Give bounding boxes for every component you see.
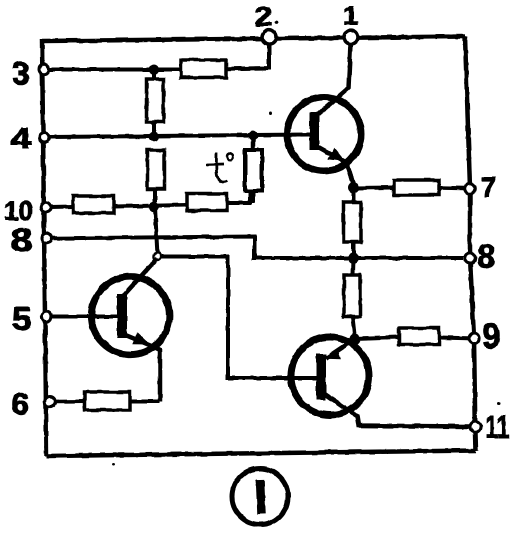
svg-text:8: 8 (11, 222, 33, 258)
svg-text:1: 1 (343, 0, 358, 30)
wire: pin 8 left row with jog (52, 237, 463, 259)
wire: left rail (42, 39, 47, 456)
node G junction pin8 row (348, 252, 359, 263)
svg-text:5: 5 (12, 301, 32, 337)
pin 7 circle (465, 183, 476, 194)
wire: Q2 collector to node E (123, 258, 158, 296)
pin 4 circle (40, 133, 50, 143)
resistor R11 (pin6 row) (85, 392, 130, 410)
wire: node H to R10 (355, 337, 399, 339)
wire: Q1 emitter (316, 146, 354, 190)
wire: Q3 collector to pin 11 row (322, 392, 470, 427)
svg-text:7: 7 (481, 172, 497, 203)
pin 10 circle (41, 202, 51, 212)
svg-text:3: 3 (12, 56, 30, 92)
pin 1 circle (344, 30, 358, 44)
wire: top rail (42, 37, 465, 42)
pin 8 right circle (465, 253, 476, 264)
transistor Q2 (91, 277, 169, 355)
node C junction pin4/R4 (248, 131, 258, 141)
node D junction pin10 row (149, 202, 159, 212)
wire: Q1 collector to pin 1 (315, 44, 351, 118)
label t deg (207, 153, 234, 183)
resistor R3 (vertical between pin4 and pin10 rows) (148, 150, 165, 189)
node B junction pin4/R2 (149, 132, 159, 142)
wire: R7 to pin7 (439, 186, 464, 191)
wire: bottom rail (47, 451, 477, 457)
node A junction on pin3 line (149, 65, 159, 75)
svg-text:4: 4 (11, 123, 32, 156)
wire: Q2 emitter (123, 334, 160, 402)
resistor R7 (to pin 7) (394, 180, 439, 195)
wire: R10 to pin 9 (439, 336, 468, 341)
resistor R8 (vertical below node F) (352, 188, 356, 202)
wire: pin 3 to junction (50, 68, 181, 72)
wire: R6 to R4 bottom (227, 191, 250, 203)
wire: node E to Q3 base (162, 257, 316, 379)
arrowhead Q3 emitter (325, 349, 341, 359)
node H: pin9 junction (350, 334, 361, 345)
transistor Q1 (287, 97, 361, 171)
svg-text:2: 2 (255, 2, 273, 32)
wire: pin 4 row (50, 135, 310, 138)
wire: junction D down to node E (155, 207, 158, 257)
svg-text:6: 6 (11, 388, 30, 421)
node F: Q1 emitter junction (348, 183, 359, 194)
wire: R5 to junction (114, 205, 187, 207)
wire: pin 5 to Q2 base (52, 315, 118, 319)
pin 5 circle (41, 312, 51, 322)
pin 2 circle (262, 30, 276, 44)
resistor R1 (pin3 row horizontal) (181, 60, 226, 78)
arrowhead Q1 emitter (328, 148, 346, 162)
resistor R6 (pin10 row right) (187, 194, 227, 211)
pin 6 circle (45, 397, 56, 408)
transistor Q3 (291, 337, 369, 415)
resistor R4 (t-deg vertical) (251, 139, 256, 150)
speckles (112, 463, 115, 466)
resistor R10 (to pin 9) (399, 328, 439, 345)
svg-text:11: 11 (486, 409, 510, 445)
resistor R2 (vertical between pin3 and pin4 rows) (152, 74, 156, 80)
pin 9 circle (469, 333, 480, 344)
logo circle I (232, 469, 288, 525)
wire: node F to R7 (354, 186, 395, 191)
wire: R11 to Q2 emitter (130, 400, 160, 404)
resistor R5 (pin10 row left) (73, 196, 114, 213)
pin 3 circle (39, 64, 49, 74)
node E small circle (154, 253, 161, 260)
wire: Q3 emitter from node H (326, 339, 355, 359)
wire: pin6 to R11 (56, 400, 85, 404)
wire: R1 to pin 2 (226, 45, 269, 69)
wire: pin10 to R5 (51, 205, 73, 210)
resistor R9 (vertical below node G) (351, 258, 356, 275)
wire: right rail (465, 37, 476, 451)
pin 8 left circle (42, 233, 52, 243)
pin 11 circle (470, 422, 481, 433)
arrowhead Q2 emitter (132, 332, 150, 344)
svg-text:9: 9 (483, 317, 501, 356)
svg-text:8: 8 (477, 237, 495, 274)
